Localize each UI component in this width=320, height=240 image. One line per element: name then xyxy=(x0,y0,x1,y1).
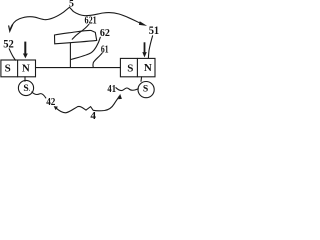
leader 51 xyxy=(148,36,152,58)
sensor 42 label S xyxy=(23,83,30,94)
magnet 52 label S xyxy=(5,63,11,75)
down arrow left (solid) xyxy=(24,42,26,54)
label 621 xyxy=(85,15,97,27)
svg-text:51: 51 xyxy=(149,24,160,37)
wire between magnets xyxy=(36,67,121,69)
leader 41 xyxy=(116,88,138,91)
arrowhead right of 5-leader xyxy=(139,21,147,26)
svg-text:62: 62 xyxy=(100,27,110,39)
magnet 51 box xyxy=(120,58,155,76)
svg-text:S: S xyxy=(5,63,11,75)
svg-text:4: 4 xyxy=(90,110,96,120)
label 5 xyxy=(69,0,74,10)
magnet 52 label N xyxy=(22,62,30,74)
plate 621 (flat bar) xyxy=(55,30,97,43)
magnet 51 label S xyxy=(127,62,133,74)
leader arrow for 4 (double-headed wavy line) xyxy=(56,96,119,113)
connector magnet52 to sensor xyxy=(24,77,26,82)
label 52 xyxy=(3,38,14,51)
label 51 xyxy=(149,24,160,37)
svg-text:41: 41 xyxy=(107,83,116,95)
svg-text:52: 52 xyxy=(3,38,14,51)
label 62 xyxy=(100,27,110,39)
svg-text:N: N xyxy=(144,62,152,74)
magnet 51 divider xyxy=(136,58,138,76)
leader 621 xyxy=(72,24,89,39)
leader 42 xyxy=(32,92,46,98)
label 41 xyxy=(107,83,116,95)
leader 52 xyxy=(9,49,15,60)
magnet 52 box xyxy=(1,60,36,77)
leader 61 xyxy=(93,53,102,67)
arrowhead left of 5-leader xyxy=(9,25,13,31)
arrowhead left of 4-leader (points at 42) xyxy=(54,106,58,110)
connector magnet51 to sensor xyxy=(140,77,143,82)
label 61 xyxy=(101,43,109,55)
svg-text:621: 621 xyxy=(85,15,97,27)
sensor 42 circle xyxy=(18,80,33,95)
magnet 51 label N xyxy=(144,62,152,74)
label 42 xyxy=(46,97,55,108)
svg-text:S: S xyxy=(143,83,148,94)
down arrow right (solid) xyxy=(144,42,146,52)
label 4 xyxy=(90,110,96,122)
arrowhead right of 4-leader (points at 41) xyxy=(118,94,122,99)
magnet 52 divider xyxy=(17,60,19,77)
svg-text:N: N xyxy=(22,62,30,74)
leader 62 xyxy=(71,37,100,59)
svg-text:S: S xyxy=(127,62,133,74)
sensor 41 circle xyxy=(138,82,154,98)
leader arrow for 5 (double-headed curved line) xyxy=(10,7,141,28)
sensor 41 label S xyxy=(143,83,148,94)
svg-text:S: S xyxy=(23,83,28,94)
shaft 62 (vertical) xyxy=(69,43,71,67)
